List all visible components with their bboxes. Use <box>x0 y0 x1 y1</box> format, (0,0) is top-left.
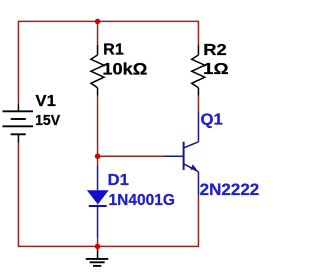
svg-text:15V: 15V <box>35 112 61 129</box>
svg-text:R1: R1 <box>103 42 124 59</box>
svg-text:V1: V1 <box>35 93 56 110</box>
svg-text:Q1: Q1 <box>201 111 224 128</box>
svg-text:D1: D1 <box>108 172 130 189</box>
svg-text:2N2222: 2N2222 <box>200 181 260 199</box>
svg-text:10kΩ: 10kΩ <box>102 61 147 79</box>
svg-text:R2: R2 <box>203 42 227 59</box>
svg-text:1N4001G: 1N4001G <box>109 192 176 209</box>
svg-text:1Ω: 1Ω <box>203 61 229 78</box>
